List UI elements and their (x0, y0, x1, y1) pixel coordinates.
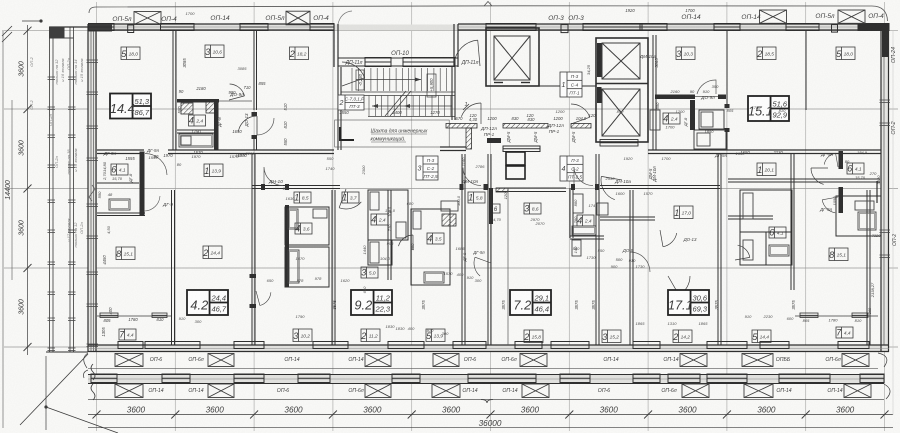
door arc ДГ-9л right top (824, 153, 835, 164)
bath walls 17.1 (740, 231, 792, 233)
right wall inner line (883, 56, 885, 345)
right small fixtures (855, 201, 874, 210)
X-box row1 (208, 354, 234, 367)
top wall west inner line (88, 26, 334, 28)
dim ticks 3600 row (93, 411, 889, 419)
shaft note box (335, 120, 450, 147)
lower wall A (252, 154, 255, 345)
staircase lower treads (369, 96, 451, 117)
bath fixtures 14.4 (179, 134, 213, 147)
wall room5/3 (173, 31, 176, 150)
lower wall corridor left (252, 186, 340, 189)
bath fixtures 17.1 (743, 193, 753, 219)
chute room bar (503, 146, 540, 152)
fixtures left of wall D (441, 201, 458, 211)
window sill band2 (707, 374, 747, 383)
chute squares (506, 152, 525, 165)
stair recess west wall (334, 24, 338, 67)
door arc bath 9.2 (399, 235, 414, 246)
X-box row2 (682, 384, 709, 398)
separation wall left b (168, 150, 334, 154)
stair window ОП-10 sill (365, 58, 391, 67)
dim line 3600 row (88, 414, 893, 416)
room label 5 13.9 (426, 329, 445, 342)
door arc 17.1 bath (738, 245, 750, 257)
window sill top 3 (310, 24, 334, 31)
wall room2/5 right (805, 31, 807, 110)
lower wall corridor right2 (728, 179, 880, 182)
room label 2 18.5 (757, 47, 776, 60)
room label 1 20.1 (757, 163, 776, 176)
bath6 east wall (140, 152, 145, 216)
dim line 36000 (88, 427, 893, 429)
door arc kitchen 14.4 (230, 84, 245, 96)
left wall inner lines (91, 24, 94, 352)
wall 15.1 west (653, 35, 656, 150)
stair recess east wall (454, 24, 458, 67)
elevator 2 jamb a (597, 43, 602, 77)
door arc stair east (454, 40, 478, 64)
elevator shaft 2b inner (602, 89, 640, 136)
room label 5 18.0 (14.4) (121, 47, 140, 60)
X-box row2 (208, 384, 234, 398)
room label 6 small (491, 204, 500, 213)
X-box row1 (842, 354, 869, 367)
X-box top ОП-5л a (134, 12, 161, 25)
wall kitchen top right b (718, 95, 726, 100)
bath6 fixture (109, 199, 130, 210)
lower wall row2 right (728, 216, 773, 219)
X-box row2 (844, 384, 871, 398)
door jamb A1 (250, 274, 257, 278)
stair level mark box right (427, 74, 436, 97)
lower wall H (630, 190, 633, 345)
X-box row1 (520, 354, 547, 367)
label box П-3 С-4 ПТ-1 (560, 72, 582, 97)
room label 4 2.4 mid (371, 214, 388, 225)
separation wall right (648, 150, 881, 154)
window sill top 1 (161, 24, 195, 31)
room label 3 10.6 (205, 45, 224, 58)
room label 4 2.4 right-mid (577, 215, 594, 226)
band2 mid line (88, 378, 884, 380)
room label 4 2.4 (15.1) (663, 113, 680, 124)
small bay window top right (832, 25, 838, 32)
lower wall left room (172, 190, 175, 345)
bath fixtures P (288, 250, 299, 283)
top wall east inner line (458, 26, 889, 28)
room label 3 8.6 (524, 203, 541, 214)
left dim ticks (24, 27, 32, 351)
door arc 14.4 hall (145, 153, 167, 175)
lobby vertical wall (466, 128, 472, 149)
X-box row2 (115, 384, 143, 398)
section curve right a (878, 353, 887, 367)
staircase tread bottom line (368, 116, 455, 118)
wall E dark segment (489, 188, 493, 224)
shaft corner bracket (340, 127, 354, 140)
X-box row1 (115, 354, 143, 367)
wall bath vertical right (690, 100, 695, 130)
stair level mark box left (356, 70, 364, 90)
right wall top thick corner (858, 23, 889, 31)
top wall band fill (88, 25, 866, 31)
window sill top 0 (89, 24, 115, 31)
bottom left diagonal b (46, 407, 118, 433)
bath6r west wall a (839, 151, 844, 169)
staircase west wall (338, 67, 341, 150)
elevator shaft 2 divider (596, 83, 648, 85)
loggia outer wall lines (50, 27, 54, 352)
room label 4 2.4 (14.4) (189, 115, 206, 126)
X-box top ОП-14 (760, 10, 787, 23)
door arc room 17.1 hall (630, 252, 650, 272)
door jamb ДО-13 b (252, 135, 258, 139)
bath6r wall right (876, 181, 878, 203)
wall room3/2 (254, 31, 257, 110)
X-box row1 (433, 354, 459, 367)
left wall break mark (89, 185, 95, 201)
apartment box 17.1 (668, 290, 709, 315)
window sill band2 (860, 374, 884, 383)
lower wall corridor right (600, 186, 720, 189)
wall 254 lower seg (254, 139, 257, 150)
stair window ОП-10 sill b (403, 58, 455, 67)
wall 7.2 top (496, 188, 566, 192)
window sill bottom wall (313, 342, 348, 349)
door arc hall 14.4 (238, 116, 257, 132)
thin line mid 508 (507, 188, 509, 345)
window sill bottom wall (118, 342, 143, 349)
leader dot top left (39, 19, 42, 22)
label box П-3 С-2 ПТ-2.5 left (416, 156, 438, 180)
left margin hatch (2, 26, 12, 42)
corridor jamb c2 (484, 184, 488, 190)
room 7r window shelf (795, 315, 878, 317)
elevator shaft 2a inner (602, 43, 640, 79)
X-box row2 (522, 384, 549, 398)
thin line below row2 (88, 399, 884, 401)
door arc lobby left (461, 103, 481, 117)
window sill bottom wall (760, 342, 789, 349)
bath hatch block b (206, 102, 215, 113)
loggia top cap (50, 26, 89, 28)
window sill top 8 (786, 24, 819, 31)
bottom left curve a (84, 370, 89, 378)
window sill band2 (468, 374, 536, 383)
stair recess band (338, 58, 458, 66)
door arc kitchen 15.1 (697, 80, 716, 94)
window sill bottom wall (453, 342, 486, 349)
window sill band2 (298, 374, 330, 383)
door arc far right (811, 168, 824, 184)
left dim line outer (11, 100, 13, 280)
window sill bottom wall (515, 342, 542, 349)
room label 1 8.5 (294, 192, 311, 203)
room label 7 4.4 left (119, 329, 136, 340)
bath6r west wall b (839, 187, 844, 213)
door arc hall 9.2 (339, 202, 361, 209)
wall kitchen top light (695, 96, 718, 98)
wall kitchen top right (655, 95, 695, 100)
lower wall F (570, 188, 573, 238)
bath fixtures 15.1 (701, 112, 713, 127)
small bay window top left (128, 25, 134, 33)
room label 1 17.0 (674, 206, 693, 219)
X-box row1 (680, 354, 707, 367)
room label 6 4.1 right (769, 227, 786, 238)
elevator 1 door (494, 82, 530, 84)
bath6 bottom wall (97, 213, 145, 216)
apartment box 9.2 (351, 290, 392, 315)
wall bath vertical (214, 100, 219, 150)
section curve left a (84, 353, 88, 368)
room label 2 18.2 (290, 47, 309, 60)
room label 2 14.2 (673, 330, 692, 343)
lower wall K (867, 190, 870, 345)
section curve right b (884, 384, 890, 399)
X-box top ОП-5л c (838, 10, 865, 23)
window sill bottom wall (838, 342, 869, 349)
door arc 7.2 inner (474, 257, 480, 276)
hall wall 9.2 west (285, 205, 289, 287)
lobby corridor wall c (571, 124, 591, 129)
right wall (881, 24, 889, 352)
corridor jamb a1 (261, 184, 265, 190)
door arc bath6 (145, 196, 161, 211)
window sill band2 (234, 374, 264, 383)
bottom wall band fill (88, 346, 889, 352)
door arc stair west (342, 62, 365, 78)
left wall band fill (89, 24, 97, 352)
bath cluster 17.1 (740, 190, 792, 265)
window sill band2 (91, 374, 117, 383)
lower wall J (791, 154, 794, 290)
label box П-3 С-2 ПТ-2.5 mid (560, 156, 583, 181)
door arc ДГ-9л right bottom (822, 200, 835, 213)
right wall top thick (882, 24, 889, 57)
apartment box 14.4 (110, 94, 151, 119)
lobby corridor wall b (503, 124, 548, 129)
room label 2 24.4 (203, 246, 222, 259)
parapet outline top (89, 6, 888, 21)
bath box Q3 (411, 209, 450, 285)
window sill bottom wall (388, 342, 424, 349)
construction grid lines horizontal (4, 31, 898, 347)
bath6 south wall (97, 182, 139, 184)
parapet break mark (484, 2, 492, 7)
corridor jamb b2 (595, 184, 599, 190)
left wall (88, 24, 96, 352)
room label 6 4.1 left (111, 164, 128, 175)
right margin line (892, 30, 894, 415)
right wall band fill (882, 24, 889, 352)
window sill band2 (668, 374, 700, 383)
room label 4 3.6 (295, 223, 312, 234)
window sill top 4 (486, 24, 536, 31)
bottom wall (88, 345, 889, 352)
room label 8 15.1 right (829, 248, 848, 261)
room label 3 10.2 (293, 329, 312, 342)
top wall east segment (458, 24, 889, 30)
room label 3 10.3 (676, 47, 695, 60)
lower wall D (462, 154, 465, 345)
X-box row2 (365, 384, 391, 398)
elevator 2 machine box (600, 140, 638, 147)
loggia window frame ticks (48, 77, 76, 351)
bath hatch block a (181, 103, 193, 114)
wall 7.2 top hatch (496, 188, 508, 192)
door arc 17.1 entry (663, 233, 677, 247)
brace mark bottom (481, 400, 493, 404)
room label 8 15.1 left (116, 247, 135, 260)
sink fixtures 15.1 left (650, 110, 660, 130)
X-box row2 (744, 384, 773, 398)
window sill band2 (162, 374, 190, 383)
room label 2 15.8 (524, 330, 543, 343)
door arc ДО-13 left (257, 118, 274, 135)
staircase east wall (452, 67, 455, 120)
door arc ДН-10 b (574, 167, 593, 186)
kitchen fixtures G (573, 194, 583, 213)
room label 4 3.5 (427, 233, 444, 244)
band2 wall (88, 375, 884, 384)
X-box top ОП-5л b (286, 11, 310, 25)
left margin line (2, 30, 4, 428)
room label 1 5.8 (468, 192, 485, 203)
bottom left vertical (45, 356, 47, 430)
staircase flight arrow up (356, 79, 421, 81)
wall kitchen top (177, 99, 219, 103)
bath box Q1 (368, 190, 408, 240)
lobby corridor wall a (446, 124, 477, 129)
window sill top 2 (240, 24, 268, 31)
lower wall G (596, 154, 599, 345)
staircase break line (385, 91, 411, 116)
bath fixtures 7.2 (572, 226, 596, 235)
window sill bottom wall (633, 342, 660, 349)
right small room walls (836, 196, 881, 236)
room label 5 14.4 (752, 330, 771, 343)
lower wall B (332, 190, 335, 345)
window sill band2 (392, 374, 420, 383)
elevator shaft 1 inner (494, 36, 530, 80)
room label 3 5.0 (361, 267, 378, 278)
thin line below row1 (88, 367, 878, 369)
bottom left brace 1 (91, 364, 95, 380)
bottom left dot (44, 405, 47, 408)
door arc lobby right (571, 104, 590, 117)
room label 5 18.0 (15.1) (836, 47, 855, 60)
window sill bottom wall (234, 342, 264, 349)
room label 7 4.4 right (836, 327, 853, 338)
bottom left diagonal a (20, 354, 88, 425)
left dim line (27, 25, 29, 355)
door arc ДН-10 a (264, 167, 283, 186)
loggia inner wall lines (70, 27, 74, 352)
elevator lobby wall (539, 85, 596, 87)
corridor jamb a2 (285, 184, 289, 190)
door arc wall A (260, 292, 271, 305)
bath box 15.1 a (699, 110, 724, 129)
lower wall I (718, 154, 721, 345)
room label 6 4.1 far right (847, 163, 864, 174)
window sill top 9 (858, 24, 889, 31)
staircase upper treads (352, 68, 447, 91)
lower wall E (488, 154, 491, 345)
bath box 15.1 b (694, 130, 726, 149)
lower wall row2 mid (600, 217, 655, 220)
bath fixtures Q (370, 192, 379, 210)
bath box P1 (285, 207, 329, 245)
window sill bottom wall (707, 342, 747, 349)
wall bath bottom (177, 130, 214, 133)
staircase flight arrow down (372, 105, 452, 107)
elevator 2 jamb b (597, 87, 602, 103)
right wall window frame ticks (880, 100, 891, 258)
elevator shaft 2 walls (596, 38, 648, 142)
bottom left brace 2 (91, 384, 95, 400)
door jamb A2 (250, 304, 257, 308)
window sill band2 (560, 374, 590, 383)
bath box Q2 (368, 240, 392, 265)
balcony door arc above stair recess (338, 11, 352, 24)
separation wall left a (97, 150, 144, 154)
window sill bottom wall (551, 342, 589, 349)
door arc lobby bottom (601, 176, 615, 199)
wall kitchen light (219, 100, 252, 102)
window sill bottom wall (145, 342, 200, 349)
separation wall mid (440, 147, 466, 151)
bottom wall inner line (88, 348, 889, 350)
left wall window frame ticks (87, 60, 99, 347)
X-box row1 (365, 354, 391, 367)
window sill band2 (779, 374, 830, 383)
room label 3 15.2 (602, 330, 621, 343)
apartment box 4.2 (187, 290, 228, 315)
stair label box (338, 95, 364, 110)
door jamb ДО-13 a (252, 112, 258, 116)
apartment box 7.2 (510, 290, 551, 315)
staircase landing edge (341, 92, 455, 96)
wall 7.2 kitchen (570, 236, 604, 239)
room label 1 13.9 (204, 164, 223, 177)
loggia top corner (49, 27, 65, 39)
lobby corner wall (487, 138, 501, 143)
corridor jamb b1 (571, 184, 575, 190)
window sill top 7 (714, 24, 740, 31)
window sill band2 (633, 374, 660, 383)
bath fixtures Q3 (413, 211, 421, 229)
room label 2 11.2 (361, 329, 380, 342)
lower wall C (388, 190, 391, 280)
window sill top 6 (640, 24, 667, 31)
small bay window top mid (561, 25, 568, 33)
room label 1 3.7 (342, 192, 359, 203)
X-box row1 (742, 354, 773, 367)
wall 727 jambs (725, 104, 730, 108)
elevator shaft 1 walls (486, 28, 539, 86)
window sill top 5 (583, 24, 642, 31)
door arc right room (679, 276, 690, 295)
apartment box 15.1 (748, 96, 789, 121)
top-left corner block (88, 24, 112, 32)
band2 fill (88, 375, 884, 383)
door arc ДМ-10л c arc (463, 168, 481, 186)
room 8 window shelf (97, 315, 171, 317)
X-box row2 (432, 384, 460, 398)
corridor jamb c1 (460, 184, 464, 190)
